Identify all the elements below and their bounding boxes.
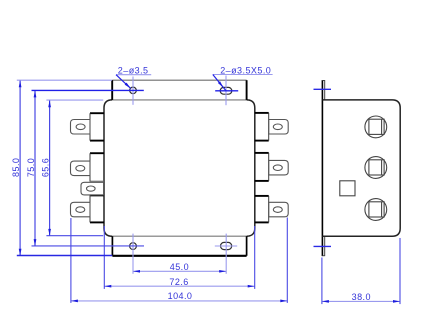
- svg-text:85.0: 85.0: [11, 158, 21, 177]
- svg-text:104.0: 104.0: [168, 291, 193, 301]
- svg-text:45.0: 45.0: [170, 262, 189, 272]
- svg-text:38.0: 38.0: [352, 292, 371, 302]
- svg-text:72.6: 72.6: [169, 277, 188, 287]
- svg-text:75.0: 75.0: [26, 158, 36, 177]
- svg-text:2–ø3.5: 2–ø3.5: [118, 66, 149, 76]
- svg-text:2–ø3.5X5.0: 2–ø3.5X5.0: [220, 65, 271, 75]
- svg-text:65.6: 65.6: [41, 158, 51, 177]
